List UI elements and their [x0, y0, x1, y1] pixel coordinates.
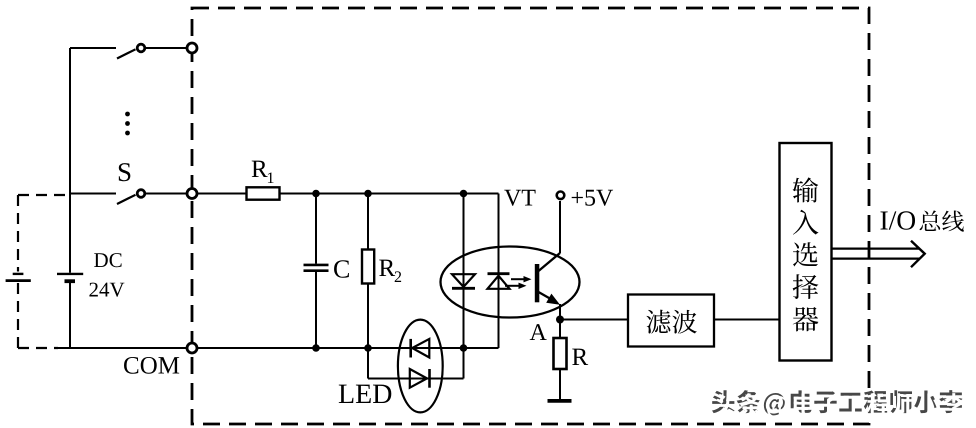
terminal X2: [187, 189, 197, 199]
switch S blade: [117, 195, 136, 204]
label +5V: [572, 192, 583, 203]
label R1: [252, 161, 268, 177]
LED diode D3 (points left): [412, 339, 429, 358]
I/O bus arrowhead: [911, 241, 925, 267]
opto diode D2 (up): [488, 276, 510, 289]
resistor R: [554, 338, 567, 369]
label R: [572, 349, 588, 365]
I/O bus arrow bottom line: [832, 258, 921, 260]
wire C upper lead: [315, 194, 317, 264]
label 输入选择器: [793, 177, 819, 202]
external battery short plate: [13, 273, 24, 275]
wire top switch left: [70, 47, 116, 49]
wire COM bus inside: [198, 347, 464, 349]
battery DC24V long plate: [57, 273, 83, 275]
wire R2 lower lead: [367, 284, 369, 349]
resistor R1: [247, 187, 280, 199]
wire bottom right segment: [464, 347, 499, 349]
label 滤波: [646, 310, 670, 334]
label DC 24V: [94, 253, 108, 267]
label LED: [339, 385, 354, 403]
wire battery to COM bus: [69, 283, 71, 348]
label R2: [379, 260, 395, 276]
capacitor C plate1: [304, 264, 329, 267]
switch SW1 blade: [117, 49, 136, 58]
wire A to filter: [560, 319, 628, 321]
LED diode D3 cathode bar: [409, 339, 412, 358]
opto diode D2 bar: [488, 272, 510, 275]
wire LED left leg: [367, 348, 369, 379]
label COM: [124, 357, 138, 374]
PLC boundary dashed box: [192, 8, 869, 424]
light arrow 2: [505, 285, 521, 287]
switch SW1 contact: [137, 44, 145, 52]
label S: [119, 163, 131, 181]
LED diode D4 (points right): [410, 369, 427, 388]
external battery long plate: [6, 279, 31, 282]
light arrow 1: [511, 278, 526, 280]
wire switch SW1 to terminal: [146, 47, 187, 49]
switch S contact: [137, 190, 145, 198]
node dot bottom C: [312, 344, 320, 352]
watermark 头条@电子工程师小李: [712, 390, 735, 413]
phototransistor VT base bar: [535, 264, 540, 302]
battery DC24V short plate: [65, 279, 76, 283]
wire opto right vertical: [498, 194, 500, 349]
label I/O 总线: [880, 211, 887, 229]
wire R to ground: [559, 369, 561, 399]
input selector box: [780, 143, 832, 361]
VT emitter: [539, 292, 553, 300]
I/O bus arrow top line: [832, 248, 920, 250]
label C: [334, 260, 349, 277]
external supply dashed box left edge upper: [17, 195, 19, 272]
terminal X1: [187, 43, 197, 53]
wire switch S to terminal: [146, 193, 187, 195]
external supply dashed box top edge: [18, 194, 69, 196]
wire LED bottom branch: [368, 378, 464, 380]
opto diode D1 (down): [452, 274, 475, 287]
terminal +5V: [557, 192, 565, 200]
wire opto left vertical: [463, 194, 465, 349]
label VT: [504, 190, 521, 206]
wire switch S left: [70, 193, 116, 195]
wire COM bus: [58, 347, 186, 349]
ellipsis dots: [125, 112, 130, 117]
node dot bottom opto/LED: [460, 344, 468, 352]
opto diode D1 bar: [452, 287, 475, 290]
external supply dashed box left edge lower: [17, 283, 19, 348]
wire terminal X2 to R1: [198, 193, 247, 195]
resistor R2: [362, 250, 374, 284]
LED ellipse: [398, 320, 443, 413]
node dot bottom R2/LED: [364, 344, 372, 352]
node A dot: [556, 316, 564, 324]
capacitor C plate2: [304, 269, 329, 272]
filter box: [628, 295, 714, 347]
wire emitter to R: [559, 304, 561, 338]
node dot top C: [312, 190, 320, 198]
node dot top opto: [460, 190, 468, 198]
wire filter to selector: [714, 319, 780, 321]
label A: [530, 324, 547, 340]
wire left bus vertical: [69, 48, 71, 273]
wire +5V to collector: [559, 201, 561, 254]
node dot top R2: [364, 190, 372, 198]
external supply dashed box bottom edge: [18, 347, 58, 349]
ground bar: [548, 399, 572, 403]
LED diode D4 cathode bar: [428, 369, 431, 388]
VT emitter arrowhead: [546, 294, 560, 305]
optocoupler ellipse U1: [441, 247, 580, 318]
VT collector: [539, 253, 560, 271]
terminal COM: [187, 343, 197, 353]
wire C lower lead: [315, 272, 317, 348]
wire R2 upper lead: [367, 194, 369, 250]
wire LED right leg: [463, 348, 465, 379]
wire R1 to corner: [280, 193, 499, 195]
